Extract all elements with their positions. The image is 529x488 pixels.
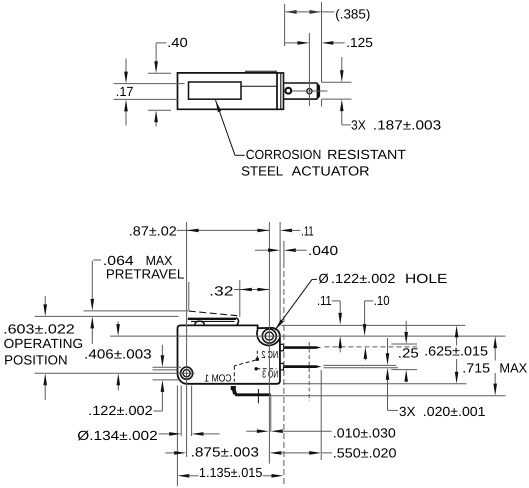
dimension .064 pretravel leader dash (93, 259, 101, 261)
svg-text:1.135±.015: 1.135±.015 (199, 465, 263, 480)
svg-text:Ø.134±.002: Ø.134±.002 (77, 428, 157, 443)
terminal NO shoulder (280, 363, 284, 370)
svg-text:.040: .040 (308, 243, 338, 258)
dimension .40 extension line bottom (148, 109, 171, 111)
extension line lever tip x=239.8 (239, 280, 241, 317)
dimension .603 arrows (44, 296, 46, 305)
operating position line A2 (35, 315, 179, 317)
internal dashed diagonal to COM (234, 360, 255, 366)
dimension .406 arrows (117, 322, 119, 326)
actuator top view: switch body outline (178, 73, 278, 109)
body bottom extension line right (283, 383, 466, 385)
internal dashed vertical at COM (233, 366, 235, 382)
NO terminal top extension (324, 364, 397, 366)
actuator top view: inner step line (241, 85, 277, 87)
boss arc around top-right mounting hole (257, 329, 280, 345)
dashed terminal top reference (325, 346, 418, 348)
svg-text:(.385): (.385) (335, 6, 370, 21)
plunger outline (284, 82, 318, 84)
svg-text:.87±.02: .87±.02 (129, 224, 177, 239)
dimension .17 arrows (125, 59, 127, 73)
plunger small ring boss (285, 88, 291, 94)
svg-text:POSITION: POSITION (4, 352, 67, 367)
extension line body right edge x=280.1 (279, 222, 281, 325)
mounting plane line y=395.8 (271, 395, 506, 397)
svg-text:.11: .11 (317, 293, 332, 308)
svg-text:.550±.020: .550±.020 (333, 445, 397, 460)
lever free position line A1 (84, 310, 189, 312)
svg-text:3X: 3X (399, 404, 416, 419)
dimension .10 lower arrow (364, 358, 366, 360)
dimension .122 elbow and label (154, 410, 163, 412)
mounting hole top-right outer (262, 329, 276, 343)
svg-text:.187±.003: .187±.003 (373, 117, 441, 132)
reference line L3 for .25 (391, 343, 417, 345)
dimension 3X .187 arrows (341, 57, 343, 71)
dimension 1.135 row (177, 474, 189, 478)
svg-text:.875±.003: .875±.003 (191, 444, 259, 459)
actuator top view: face inner line (280, 73, 282, 109)
internal contact dot NC (256, 358, 259, 361)
leader to corrosion resistant steel actuator note (216, 100, 236, 155)
lever bottom line (191, 320, 235, 322)
svg-text:PRETRAVEL: PRETRAVEL (106, 267, 184, 282)
extension line lever left end x=188.8 (188, 282, 190, 311)
dimension .064 pretravel arrows (91, 261, 93, 300)
extension line at plunger base x=284.6 (284, 4, 286, 46)
extension line hole edge x=191.6 (191, 386, 193, 437)
internal dashed line up from NC dot (256, 351, 258, 358)
svg-text:STEEL: STEEL (241, 163, 283, 178)
svg-text:.020±.001: .020±.001 (423, 404, 486, 419)
svg-text:3X: 3X (351, 117, 366, 132)
svg-text:COM 1: COM 1 (204, 374, 231, 385)
terminal COM tick mark (257, 389, 259, 403)
svg-text:OPERATING: OPERATING (4, 336, 83, 351)
actuator top view: slot rectangle (189, 82, 242, 99)
svg-text:.10: .10 (374, 293, 390, 308)
leader to hole (312, 278, 317, 280)
dimension .875 and .550 row (166, 452, 176, 454)
dimension 3X .187 elbow and label (341, 115, 343, 125)
dimension .040 (255, 249, 269, 251)
extension line COM terminal end x=270.8 (270, 397, 272, 432)
dimension .122 arrows (161, 345, 163, 356)
svg-text:.32: .32 (209, 283, 233, 298)
extension line hole edge x=181.2 (180, 386, 182, 437)
terminal COM bend (232, 390, 237, 395)
dimension .40 extension line top (148, 72, 171, 74)
lever solid bar (188, 318, 236, 320)
centerline right mounting hole x=269.4 (268, 222, 270, 464)
switch body outline with corner bosses (178, 325, 281, 383)
svg-text:.25: .25 (398, 345, 419, 360)
body top extension line right (282, 324, 466, 326)
extension line terminal tip plane x=321.2 (320, 370, 322, 460)
svg-text:MAX: MAX (499, 360, 527, 375)
dimension 3X .020 elbow and label (388, 409, 399, 411)
extension line terminal shoulder x=283.9 solid then dashed (283, 241, 285, 262)
internal dashed line NO (256, 368, 276, 370)
svg-text:.603±.022: .603±.022 (3, 321, 75, 336)
svg-text:NO 3: NO 3 (262, 369, 278, 380)
NO terminal bottom extension (324, 367, 399, 369)
svg-text:ACTUATOR: ACTUATOR (292, 163, 370, 178)
dashed line through terminals x=309.2 (308, 342, 310, 401)
dimension 3X .187 extension lines (322, 81, 352, 83)
terminal NC blade (284, 346, 321, 349)
dimension .40 lower arrow (155, 121, 157, 126)
extension line body left edge down x=177.4 (176, 386, 178, 487)
actuator top view: top edge detail line (245, 70, 277, 72)
mounting hole top-right inner (265, 332, 273, 340)
dimension .11 top right (280, 229, 292, 233)
dimension .11 lower arrow (339, 347, 341, 352)
terminal NO blade (284, 365, 321, 368)
svg-text:.17: .17 (116, 84, 134, 99)
dimension (.385) (285, 10, 297, 14)
svg-text:.125: .125 (346, 35, 373, 50)
svg-text:.122±.002: .122±.002 (331, 271, 395, 286)
internal contact dot NO (255, 367, 258, 370)
lever button dome (195, 321, 205, 325)
centerline left mounting hole x=186.6 (186, 222, 188, 457)
svg-text:.11: .11 (301, 224, 314, 239)
svg-text:.122±.002: .122±.002 (88, 403, 153, 418)
hole inner top extension left (153, 369, 178, 371)
hole outer bottom extension left (153, 379, 180, 381)
svg-text:.010±.030: .010±.030 (333, 425, 396, 440)
svg-text:.40: .40 (167, 35, 188, 50)
hole outer top extension left (153, 366, 182, 368)
svg-text:.625±.015: .625±.015 (424, 344, 488, 359)
extension line at hole center x=309.4 (308, 33, 310, 106)
plunger end cap (317, 83, 321, 100)
lever free position phantom dashed (189, 311, 238, 316)
hole centerline L2 (110, 335, 506, 337)
svg-text:HOLE: HOLE (405, 271, 448, 286)
plunger hole (307, 89, 312, 94)
dimension .40 leader elbow (156, 42, 166, 44)
mounting hole bottom-left inner (183, 370, 190, 377)
terminal COM bottom blade (234, 393, 271, 396)
dimension .25 arrows (405, 321, 407, 333)
left hole centerline L4 (35, 372, 195, 374)
svg-text:CORROSION: CORROSION (246, 147, 321, 162)
dimension .715 arrows (494, 347, 496, 360)
lever right end hook (236, 318, 239, 326)
svg-text:.715: .715 (462, 360, 490, 375)
svg-text:.406±.003: .406±.003 (84, 347, 151, 362)
svg-text:RESISTANT: RESISTANT (327, 147, 406, 162)
mounting hole bottom-left outer (181, 367, 193, 379)
terminal NC shoulder (280, 344, 284, 351)
actuator top view: right face slab (277, 73, 284, 109)
dimension .125 (285, 42, 299, 44)
svg-text:Ø: Ø (319, 271, 329, 286)
terminal COM nub below body (231, 386, 236, 390)
dimension .625 arrows (456, 336, 458, 345)
plunger centerline (292, 90, 327, 92)
dimension 3X .020 arrows (387, 338, 389, 354)
extension line at plunger end x=321.5 (321, 2, 323, 82)
dimension .010 row (246, 430, 258, 432)
dimension .17 extension lines (114, 83, 185, 85)
reference line L6 for .25 (391, 369, 417, 371)
